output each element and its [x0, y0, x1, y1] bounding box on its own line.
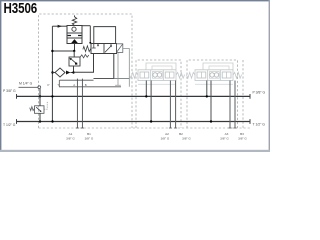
- wire A1 drop: [76, 79, 78, 128]
- wire to filter: [53, 72, 56, 74]
- V2 right cell blocks: [165, 72, 174, 78]
- interface line L1a extension: [114, 78, 130, 80]
- svg-text:3/8" G: 3/8" G: [66, 137, 75, 141]
- svg-text:B2: B2: [179, 132, 183, 136]
- pressure reducing valve PRV body: [69, 57, 80, 66]
- node V2 P: [145, 95, 147, 97]
- module 1 dashed border: [39, 14, 133, 128]
- node y51 left: [51, 50, 53, 52]
- relief valve RV1 mid cell marks: [68, 35, 82, 37]
- svg-text:3/8" G: 3/8" G: [238, 137, 247, 141]
- wire V3 P stub: [206, 81, 208, 97]
- module 2 dashed border: [136, 60, 181, 128]
- wire PRV bottom stub: [73, 66, 75, 73]
- wire V3 T stub: [210, 81, 212, 122]
- node diamond inlet: [51, 71, 53, 73]
- V3 left cell blocks: [197, 72, 206, 78]
- V3 pilot loop inner: [209, 66, 229, 70]
- A2 end tick: [169, 127, 172, 129]
- PRV spring top right: [80, 54, 89, 57]
- LV spring left: [30, 107, 35, 111]
- wire V2 T stub: [150, 81, 152, 122]
- svg-text:M 1/4" G: M 1/4" G: [19, 82, 33, 86]
- svg-text:3/8" G: 3/8" G: [182, 137, 191, 141]
- svg-text:B3: B3: [240, 132, 244, 136]
- svg-text:A: A: [73, 83, 75, 87]
- wire PRV top stub: [73, 51, 75, 57]
- wire DV1 right bottom port down: [113, 54, 115, 79]
- B3 end tick: [234, 127, 237, 129]
- P bus right port tick: [249, 94, 251, 99]
- wire V2 P stub: [145, 81, 147, 97]
- V2 sandwich line: [138, 83, 176, 85]
- svg-text:A1: A1: [69, 132, 73, 136]
- interface tick: [58, 80, 60, 87]
- V2 left cell blocks: [140, 72, 149, 78]
- wire B3 drop: [234, 81, 236, 129]
- V2 pilot loop: [146, 63, 176, 70]
- check valve arrow: [66, 71, 70, 75]
- node after check valve: [72, 71, 74, 73]
- relief valve RV1 bottom cell arrow: [71, 39, 78, 43]
- A3 end tick: [229, 127, 232, 129]
- wire LV top stub: [39, 96, 41, 106]
- P bus left port tick: [16, 94, 18, 99]
- svg-text:3/8" G: 3/8" G: [161, 137, 170, 141]
- wire M port down to P: [39, 89, 41, 96]
- svg-text:3/8" G: 3/8" G: [85, 137, 94, 141]
- wire RV1 top out to right: [82, 25, 90, 27]
- V3 spring right: [233, 72, 242, 78]
- M measuring port symbol: [38, 86, 41, 89]
- wire LV bottom stub: [39, 113, 41, 121]
- B2 end tick: [174, 127, 177, 129]
- PRV black mark bottom right: [75, 63, 77, 65]
- wire M-port horizontal: [19, 86, 39, 88]
- V3 center circles: [209, 72, 219, 79]
- wire horizontal y51: [52, 50, 74, 52]
- V3 right cell blocks: [222, 72, 231, 78]
- wire arrow line to relief valve: [52, 25, 67, 27]
- svg-text:A3: A3: [225, 132, 229, 136]
- V2 spring right: [176, 72, 185, 78]
- frame left: [0, 0, 1, 152]
- node T main vertical: [51, 120, 53, 122]
- svg-text:T 1/2" G: T 1/2" G: [253, 123, 266, 127]
- T bus left port tick: [16, 119, 18, 124]
- svg-text:B1: B1: [87, 132, 91, 136]
- wire check valve out: [70, 72, 73, 74]
- wire down to DV1 top: [89, 26, 91, 44]
- frame bottom: [0, 150, 270, 152]
- LV internal arrow: [36, 107, 40, 111]
- V2 pilot loop inner: [152, 66, 172, 70]
- filter diamond: [55, 68, 65, 77]
- svg-text:3/8" G: 3/8" G: [220, 137, 229, 141]
- lower relief valve LV body: [35, 106, 45, 114]
- wire solenoid drain: [123, 49, 130, 87]
- valve V2 body: [138, 70, 176, 81]
- interface line L1a: [94, 78, 114, 80]
- T bus line: [17, 121, 251, 123]
- DV1 left cell marks: [92, 44, 98, 49]
- wire RV1 bottom stub: [74, 44, 76, 52]
- wire main left vertical: [51, 26, 53, 121]
- V3 spring left: [186, 72, 195, 78]
- DV1 spring left: [83, 46, 91, 52]
- node V2 T: [150, 120, 152, 122]
- svg-text:T 1/2" G: T 1/2" G: [3, 123, 16, 127]
- relief valve RV1 body: [67, 26, 82, 44]
- DV1 solenoid box: [117, 44, 123, 53]
- node V3 T: [210, 120, 212, 122]
- svg-text:H3506: H3506: [4, 0, 38, 17]
- node above DV1: [89, 42, 91, 44]
- V3 pilot loop: [203, 63, 233, 70]
- wire B2 drop: [175, 81, 177, 129]
- V2 spring left: [129, 72, 138, 78]
- T bus right port tick: [249, 119, 251, 124]
- frame top: [0, 0, 270, 1]
- svg-text:A2: A2: [165, 132, 169, 136]
- bottom dashed border: [39, 127, 252, 129]
- svg-text:P: P: [48, 83, 50, 87]
- A1 end tick: [76, 127, 79, 129]
- B1 end tick: [81, 127, 84, 129]
- node P main vertical: [51, 95, 53, 97]
- frame right: [269, 0, 270, 152]
- wire A3 drop: [229, 81, 231, 129]
- LV dashed pilot: [44, 101, 47, 109]
- spring above RV1: [72, 15, 76, 25]
- wire pressure line to valve bottom: [74, 54, 94, 73]
- arrowhead on inlet line: [58, 25, 62, 28]
- node y51 right: [73, 50, 75, 52]
- svg-text:P 3/8" G: P 3/8" G: [3, 89, 16, 93]
- interface line L2: [59, 86, 121, 88]
- drain line to port tick: [115, 53, 121, 86]
- valve V3 body: [195, 70, 233, 81]
- svg-text:B: B: [85, 83, 87, 87]
- wire A2 drop: [169, 81, 171, 129]
- node P at M valve: [39, 95, 41, 97]
- PRV internal arrow: [71, 59, 77, 64]
- svg-text:T: T: [57, 83, 59, 87]
- end plate dashed border: [242, 60, 244, 128]
- V3 sandwich line: [195, 83, 233, 85]
- pilot loop over DV1: [94, 27, 116, 44]
- V2 center circles: [152, 72, 162, 79]
- node T at lower valve: [39, 120, 41, 122]
- node V3 P: [206, 95, 208, 97]
- DV1 right cell arrow: [105, 44, 111, 53]
- wire B1 drop: [81, 79, 83, 128]
- relief valve RV1 circle: [72, 27, 76, 31]
- module 3 dashed border: [187, 60, 238, 128]
- interface line L1b: [60, 79, 94, 81]
- P bus line: [17, 95, 251, 97]
- svg-text:P 3/8" G: P 3/8" G: [253, 90, 266, 94]
- directional valve DV1 body: [91, 44, 117, 54]
